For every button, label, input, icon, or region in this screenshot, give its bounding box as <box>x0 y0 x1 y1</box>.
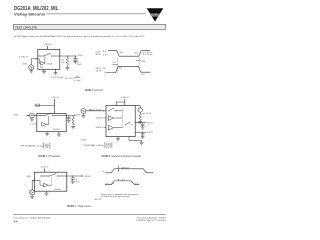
svg-text:1 V rms: 1 V rms <box>30 123 37 126</box>
ground under CL <box>73 62 77 64</box>
wire output node <box>66 114 76 117</box>
svg-text:VOUT: VOUT <box>45 144 49 146</box>
wire DUT ground pin fig7 <box>46 191 48 193</box>
svg-text:3 V/0 V: 3 V/0 V <box>19 57 29 59</box>
wire DUT ground pin 2 <box>55 69 57 72</box>
svg-text:VOUT: VOUT <box>76 114 81 116</box>
meter circle <box>138 108 142 112</box>
svg-text:VOUT1: VOUT1 <box>106 147 111 149</box>
logic input waveform <box>108 51 151 57</box>
capacitor CL fig7 <box>71 176 75 181</box>
svg-text:CL = 35 pF: CL = 35 pF <box>51 77 64 79</box>
ground under RL fig5 <box>71 126 75 129</box>
resistor under meter <box>139 112 141 121</box>
svg-text:OFF ISOLATION = 20 log: OFF ISOLATION = 20 log <box>20 144 43 147</box>
wire meter branch <box>135 106 140 108</box>
ground under CL fig5 <box>67 120 71 122</box>
switch S1 <box>38 53 60 56</box>
wire DUT ground pin a fig6 <box>117 137 119 139</box>
delta VOUT arrow <box>118 165 119 180</box>
ground under DUT pin 1 <box>42 72 46 74</box>
svg-text:Charge Injection: Charge Injection <box>78 205 92 208</box>
ground under VIN source <box>29 70 33 73</box>
section bar TEST CIRCUITS <box>13 24 165 29</box>
svg-text:35 pF: 35 pF <box>77 64 81 66</box>
svg-text:OUTPUT: OUTPUT <box>96 70 102 72</box>
svg-text:50 Ω: 50 Ω <box>146 113 152 115</box>
formula OFF ISOLATION <box>20 142 50 149</box>
svg-text:+15 V: +15 V <box>121 97 130 99</box>
svg-text:0 V: 0 V <box>103 54 108 56</box>
wire logic in ch2 <box>104 127 106 129</box>
svg-text:+15 V: +15 V <box>44 44 53 46</box>
resistor RL fig5 <box>72 116 74 126</box>
svg-text:tON: tON <box>113 61 117 64</box>
capacitor ch2 out <box>141 132 145 139</box>
svg-text:10 nF: 10 nF <box>75 182 79 184</box>
svg-text:Channel-to-Channel Crosstalk: Channel-to-Channel Crosstalk <box>111 155 141 158</box>
svg-text:CROSSTALK = 20 log: CROSSTALK = 20 log <box>83 144 104 147</box>
wire analog in ch1 <box>86 110 106 111</box>
DUT box U4 (1/4 DG201A) <box>34 172 66 191</box>
svg-text:50%: 50% <box>111 183 115 185</box>
svg-text:NOTE: Typical values are for D: NOTE: Typical values are for DESIGN AID … <box>14 35 145 38</box>
ground under DUT pin 2 <box>54 73 58 75</box>
wire logic in ch1 <box>104 117 106 119</box>
svg-text:VIN: VIN <box>45 147 49 149</box>
svg-text:1/4 DG201A: 1/4 DG201A <box>46 62 53 65</box>
svg-text:DG201A_MIL/202_MIL: DG201A_MIL/202_MIL <box>14 6 59 12</box>
Vishay logo <box>147 8 164 21</box>
svg-text:RL: RL <box>62 60 64 62</box>
svg-text:90%: 90% <box>119 68 123 70</box>
wire logic input <box>31 58 38 64</box>
svg-text:50%: 50% <box>135 53 139 55</box>
ground b fig6 <box>140 142 144 144</box>
svg-text:1 kΩ: 1 kΩ <box>61 62 65 64</box>
driver inverter A2 <box>42 116 49 126</box>
wire output ch1 <box>135 121 146 124</box>
svg-text:VO: VO <box>103 68 106 70</box>
svg-text:Vishay Siliconix: Vishay Siliconix <box>14 12 45 16</box>
dashed edge line turn-on <box>117 57 119 73</box>
wire DUT ground pin 1 <box>43 69 45 71</box>
wire V+ stub fig7 <box>44 168 46 172</box>
footer rule <box>14 214 166 216</box>
wire output node <box>60 55 77 58</box>
svg-text:3 V/0 V: 3 V/0 V <box>96 127 105 129</box>
source VIN1 sine generator <box>81 109 86 114</box>
svg-text:www.vishay.com • FaxBack 408-9: www.vishay.com • FaxBack 408-970-5600 <box>14 218 51 220</box>
wire DUT ground pin b fig6 <box>129 137 142 143</box>
wire V+ stub fig6 <box>124 99 126 105</box>
svg-text:f = 100 kHz: f = 100 kHz <box>80 140 87 142</box>
switch S2 <box>37 113 66 116</box>
svg-text:1/4 DG201A: 1/4 DG201A <box>54 188 61 191</box>
wire V+ tee branch <box>116 102 125 105</box>
internal dashed control line <box>122 109 124 128</box>
DUT box U2 (1/4 DG201A) <box>37 114 66 132</box>
capacitor CL <box>73 56 77 62</box>
source VIN sine generator <box>30 113 35 118</box>
logic input waveform fig7 <box>105 181 139 184</box>
svg-text:FIGURE 5.: FIGURE 5. <box>38 156 47 158</box>
svg-text:Switching Time: Switching Time <box>94 89 103 92</box>
svg-text:S-50513—Rev. D, 21-Jun-04: S-50513—Rev. D, 21-Jun-04 <box>136 220 166 222</box>
svg-text:VIN: VIN <box>22 64 27 66</box>
DUT box U3 (DG201A two channels) <box>106 105 135 136</box>
svg-text:VISHAY: VISHAY <box>150 13 160 17</box>
svg-text:VOUT2: VOUT2 <box>147 132 153 134</box>
source VIN pulse generator <box>29 65 34 70</box>
source VIN pulse generator fig7 <box>30 190 35 195</box>
svg-text:GND: GND <box>40 67 44 69</box>
switch output waveform <box>106 66 151 72</box>
ground 1 fig5 <box>45 134 49 136</box>
ground under DUT fig7 <box>45 193 49 195</box>
driver inverter A1 <box>38 56 45 65</box>
svg-text:TEST CIRCUITS: TEST CIRCUITS <box>15 25 37 29</box>
svg-text:VOUT2: VOUT2 <box>106 144 111 146</box>
switch S3 ch1 <box>108 108 122 111</box>
svg-text:1/4 DG201A: 1/4 DG201A <box>53 128 60 131</box>
svg-text:VIN: VIN <box>14 114 19 116</box>
wire DUT ground pin 2 fig5 <box>58 132 60 134</box>
driver inverter A4 <box>34 176 51 187</box>
svg-text:CL: CL <box>75 179 77 181</box>
svg-text:the output due to the logic tr: the output due to the logic transition. <box>101 195 130 198</box>
svg-text:VO = VOUT: VO = VOUT <box>65 78 75 80</box>
svg-text:50%: 50% <box>120 52 124 54</box>
svg-text:3 V/0 V: 3 V/0 V <box>96 118 105 120</box>
ground under source <box>30 118 34 121</box>
svg-text:+15 V: +15 V <box>51 97 60 99</box>
svg-text:INPUT: INPUT <box>96 54 101 56</box>
svg-text:VIN: VIN <box>27 176 32 178</box>
svg-text:FIGURE 6.: FIGURE 6. <box>102 156 111 158</box>
DUT box U1 (1/4 DG201A) <box>38 49 60 69</box>
header rule <box>47 13 146 15</box>
switch S4 ch2 <box>125 122 132 125</box>
wire V+ stub <box>53 99 55 114</box>
svg-text:0: 0 <box>104 72 105 74</box>
wire output node fig7 <box>67 175 84 176</box>
driver inverter B2 <box>108 125 122 130</box>
svg-text:ΔVOUT: ΔVOUT <box>85 175 92 178</box>
ground a fig6 <box>116 139 120 141</box>
svg-text:+15 V: +15 V <box>40 167 49 169</box>
wire analog input <box>27 115 37 116</box>
resistor RL <box>66 56 69 67</box>
svg-text:tf < 20 ns: tf < 20 ns <box>143 53 153 56</box>
svg-text:RL: RL <box>76 76 79 78</box>
ground under VIN1 <box>81 113 85 118</box>
svg-text:VOUT: VOUT <box>78 55 84 57</box>
capacitor ch1 out <box>141 122 145 129</box>
capacitor CL fig5 <box>67 116 71 121</box>
switch S5 <box>40 173 67 176</box>
output waveform trapezoid <box>105 169 153 173</box>
wire logic input fig7 <box>32 180 34 190</box>
svg-text:VIN = 1 V rms: VIN = 1 V rms <box>89 109 101 112</box>
ground under CL fig7 <box>71 181 75 183</box>
wire DUT ground pin 1 fig5 <box>46 132 48 134</box>
svg-text:Off Isolation: Off Isolation <box>48 155 61 158</box>
decoupling capacitor C1 <box>35 104 55 108</box>
tOFF arrow <box>136 59 141 61</box>
svg-text:10%: 10% <box>141 74 145 76</box>
svg-text:FIGURE 7.: FIGURE 7. <box>67 206 77 208</box>
wire V+ stub <box>47 46 49 50</box>
svg-text:VIN = 0 V: VIN = 0 V <box>94 199 102 201</box>
svg-text:CL: CL <box>77 62 79 64</box>
svg-text:RL + rDS(on): RL + rDS(on) <box>74 80 81 82</box>
formula CROSSTALK <box>83 142 112 149</box>
ground 2 fig5 <box>57 134 61 136</box>
svg-text:VO: VO <box>102 171 105 173</box>
svg-text:tOFF: tOFF <box>142 60 146 63</box>
driver inverter B1 <box>108 116 122 121</box>
tON arrow <box>113 64 118 66</box>
svg-text:4-4: 4-4 <box>14 219 18 223</box>
svg-text:3 V: 3 V <box>103 51 108 53</box>
ground under meter resistor <box>138 122 142 124</box>
svg-text:ΔVOUT: ΔVOUT <box>122 166 130 169</box>
svg-text:FIGURE 4.: FIGURE 4. <box>85 89 94 92</box>
dashed edge line turn-off <box>139 57 141 71</box>
formula VOUT = VO RL/(RL+rDS) <box>65 76 81 82</box>
svg-text:VOUT1: VOUT1 <box>147 122 153 124</box>
ground under source fig7 <box>30 195 34 199</box>
wire output ch2 <box>135 131 146 134</box>
ground under RL <box>65 67 69 70</box>
